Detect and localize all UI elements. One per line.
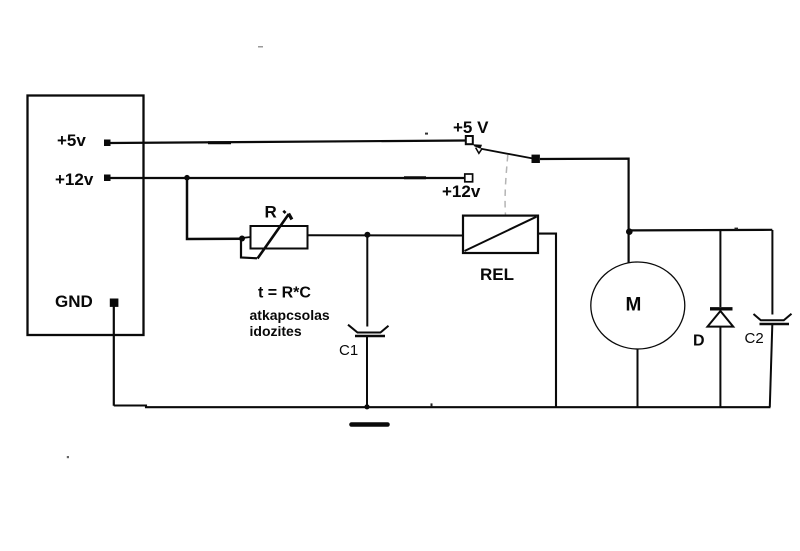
svg-text:C1: C1 bbox=[339, 342, 358, 359]
svg-text:atkapcsolas: atkapcsolas bbox=[250, 307, 330, 323]
svg-text:REL: REL bbox=[480, 265, 514, 284]
svg-text:D: D bbox=[693, 333, 705, 350]
svg-text:+12v: +12v bbox=[55, 170, 94, 189]
svg-text:t = R*C: t = R*C bbox=[258, 285, 311, 302]
svg-text:R: R bbox=[265, 203, 277, 222]
svg-text:GND: GND bbox=[55, 292, 93, 311]
svg-text:C2: C2 bbox=[745, 330, 764, 347]
svg-text:M: M bbox=[626, 295, 642, 316]
svg-text:+5 V: +5 V bbox=[453, 118, 489, 137]
svg-text:+5v: +5v bbox=[57, 131, 86, 150]
svg-text:+12v: +12v bbox=[442, 182, 481, 201]
svg-text:idozites: idozites bbox=[250, 323, 302, 339]
